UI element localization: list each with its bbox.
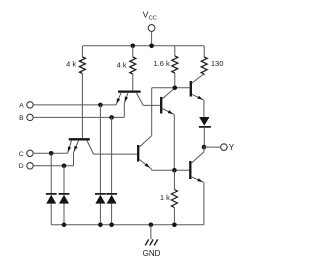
wire collector node line to Q3 base	[152, 87, 190, 89]
wire Q1a collector to Q2a base	[143, 104, 160, 106]
svg-text:4 k: 4 k	[117, 60, 127, 69]
wire input D line	[33, 165, 73, 167]
junction dot rail / D4	[109, 223, 114, 228]
power terminal VCC	[148, 25, 155, 32]
svg-text:B: B	[19, 115, 24, 122]
input terminal C	[27, 150, 33, 156]
junction dot D line / D2 riser	[62, 164, 67, 169]
svg-text:130: 130	[211, 59, 224, 68]
transistor Q2a phase splitter (A,B side)	[161, 88, 175, 115]
svg-text:CC: CC	[149, 16, 157, 22]
resistor R3 1.6k	[172, 46, 178, 88]
svg-text:C: C	[19, 151, 24, 158]
diode D5 (output level shift)	[199, 117, 211, 127]
resistor R4 130	[201, 46, 207, 76]
svg-text:GND: GND	[143, 249, 161, 258]
clamp diode D3 (input A)	[95, 105, 106, 225]
ground symbol	[145, 239, 158, 245]
input terminal B	[27, 114, 33, 120]
junction dot rail / D3	[98, 223, 103, 228]
wire Q1b collector to Q2b base	[94, 153, 138, 155]
wire Q4 emitter riser to ground rail	[203, 182, 205, 224]
input terminal D	[27, 163, 33, 169]
resistor R2 4k (base of Q1a)	[130, 46, 136, 91]
transistor Q1a multi-emitter (inputs A,B)	[116, 92, 143, 118]
transistor Q1b multi-emitter (inputs C,D)	[68, 139, 94, 166]
resistor R1 4k (base of Q1b)	[79, 46, 85, 138]
clamp diode D1 (input C)	[46, 153, 57, 225]
wire input A line	[33, 104, 116, 106]
output terminal Y	[221, 144, 228, 151]
resistor R5 1k	[171, 170, 177, 225]
wire ground rail	[51, 224, 204, 226]
wire Q4 collector riser to output node	[203, 147, 205, 152]
svg-text:A: A	[19, 102, 24, 109]
svg-text:D: D	[19, 163, 24, 170]
wire input C line	[33, 152, 67, 154]
wire VCC terminal stub	[151, 31, 153, 45]
wire Q2b collector riser	[151, 88, 153, 136]
junction dot output node	[202, 145, 207, 150]
power label VCC	[143, 10, 157, 22]
svg-text:1.6 k: 1.6 k	[154, 59, 171, 68]
wire output node to terminal Y	[204, 146, 221, 148]
svg-text:4 k: 4 k	[66, 59, 76, 68]
clamp diode D4 (input B)	[106, 117, 117, 224]
junction dot C line / D1 riser	[49, 151, 54, 156]
clamp diode D2 (input D)	[59, 166, 70, 225]
transistor Q4 (lower totem-pole)	[190, 152, 204, 183]
junction dot emitter node / 1k / Q4 base	[172, 168, 177, 173]
junction dot B line / D4 riser	[109, 115, 114, 120]
transistor Q3 (upper totem-pole)	[191, 74, 204, 101]
wire GND stub	[150, 225, 152, 240]
wire VCC rail	[82, 45, 204, 47]
wire Q2a emitter riser	[173, 115, 175, 171]
wire input B line	[33, 116, 124, 118]
wire Q3 emitter riser to diode	[203, 100, 205, 117]
junction dot rail / VCC stub	[149, 44, 154, 49]
junction dot A line / D3 riser	[98, 103, 103, 108]
svg-text:1 k: 1 k	[160, 193, 170, 202]
junction dot rail / D2	[62, 223, 67, 228]
wire Q2b emitter to Q4 base	[151, 169, 189, 171]
junction dot rail / 1k	[172, 223, 177, 228]
svg-text:Y: Y	[229, 143, 235, 152]
wire diode to output node	[203, 128, 205, 147]
junction dot node 1.6k / Q2 collectors / Q3 base	[173, 86, 178, 91]
junction dot rail / R2	[131, 44, 136, 49]
junction dot rail / GND stub	[149, 223, 154, 228]
transistor Q2b phase splitter (C,D side)	[138, 136, 152, 169]
input terminal A	[27, 102, 33, 108]
